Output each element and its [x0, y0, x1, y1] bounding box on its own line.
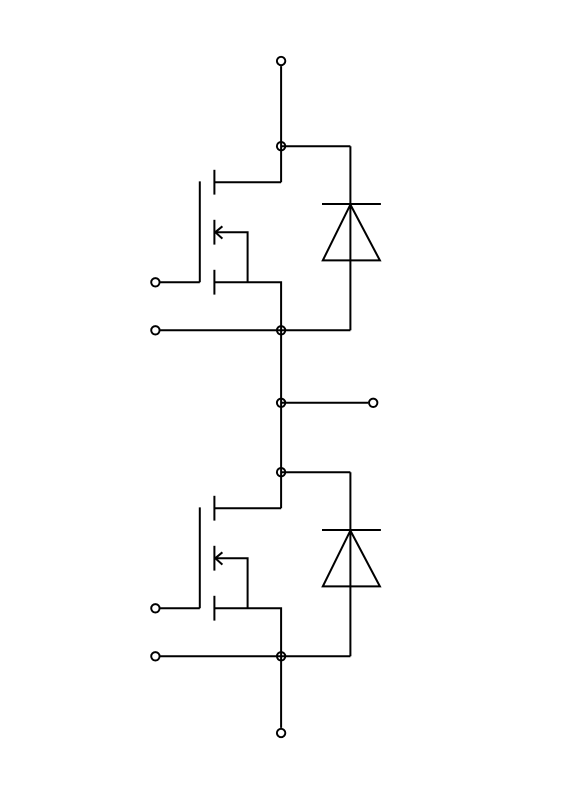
Q2 gate bar	[199, 507, 201, 608]
D2 cathode bar	[322, 529, 381, 531]
D1 cathode bar	[322, 203, 381, 205]
terminal: Q1 gate pin	[151, 278, 159, 286]
Q2 body line	[215, 558, 247, 608]
wire: upper junction to diode D1 branch (horizontal)	[281, 145, 350, 147]
Q1 body arrowhead	[215, 226, 222, 238]
D1 anode triangle	[323, 205, 380, 261]
terminal: Q1 source sense pin	[151, 326, 159, 334]
wire: mid output stub to right terminal	[281, 402, 368, 404]
terminal: mid output pin	[369, 399, 377, 407]
wire: Q2 gate lead from gate terminal	[161, 607, 200, 609]
node: upper junction (drain / D1 cathode)	[277, 142, 285, 150]
transistor Q1 (upper N-MOSFET)	[200, 170, 248, 295]
Q2 body arrowhead	[215, 552, 222, 564]
wire: Q1 source horizontal lead and drop to phase wire	[214, 282, 281, 330]
Q2 source channel stub	[213, 596, 215, 621]
wire: upper source/phase horizontal wire	[161, 329, 351, 331]
Q1 drain channel stub	[213, 170, 215, 195]
Q1 source channel stub	[213, 270, 215, 295]
D2 anode triangle	[323, 531, 380, 587]
wire: diode D2 branch vertical	[349, 472, 351, 656]
node: mid output junction	[277, 399, 285, 407]
wire: bottom junction down to bottom terminal	[280, 656, 282, 728]
wire: Q1 gate lead from gate terminal	[161, 281, 200, 283]
terminal: top (positive rail) pin	[277, 57, 285, 65]
wire: diode D1 branch vertical (cathode lead through to bottom wire)	[349, 146, 351, 330]
terminal: Q2 source sense pin	[151, 652, 159, 660]
wire: vertical bus from upper phase wire through mid node to lower junction	[280, 330, 282, 508]
diode D2 (lower freewheeling diode)	[322, 530, 381, 586]
diode D1 (upper freewheeling diode)	[322, 204, 381, 260]
node: bottom junction (Q2 source / D2 anode)	[277, 652, 285, 660]
wire: Q1 drain horizontal lead	[214, 181, 281, 183]
terminal: bottom (negative rail) pin	[277, 729, 285, 737]
wire: Q2 drain horizontal lead	[214, 507, 281, 509]
Q1 gate bar	[199, 181, 201, 282]
node: lower junction (Q2 drain / D2 cathode)	[277, 468, 285, 476]
transistor Q2 (lower N-MOSFET)	[200, 496, 248, 621]
terminal: Q2 gate pin	[151, 604, 159, 612]
Q2 drain channel stub	[213, 496, 215, 521]
node: upper phase junction (Q1 source / D1 anode)	[277, 326, 285, 334]
wire: top terminal to upper junction and down to Q1 drain corner	[280, 66, 282, 182]
wire: Q2 source horizontal lead and drop to bottom wire	[214, 608, 281, 656]
Q1 body line	[215, 232, 247, 282]
Q2 body channel stub	[213, 546, 215, 571]
wire: lower junction to diode D2 branch (horizontal)	[281, 471, 350, 473]
wire: bottom horizontal wire	[161, 655, 351, 657]
Q1 body channel stub	[213, 220, 215, 245]
